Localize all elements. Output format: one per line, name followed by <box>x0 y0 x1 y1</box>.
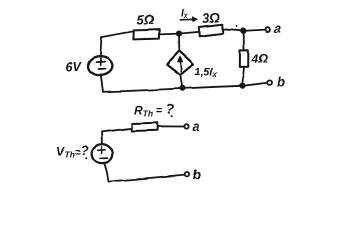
svg-text:b: b <box>193 167 201 182</box>
voltage source 6V <box>88 57 112 76</box>
svg-text:b: b <box>277 74 285 89</box>
node b (top circuit) <box>268 74 285 89</box>
label RTh = ? <box>134 101 175 119</box>
pen dot <box>236 25 238 27</box>
svg-text:5Ω: 5Ω <box>137 13 154 28</box>
wire to terminal b <box>242 83 266 86</box>
pen period after VTh label <box>85 157 87 159</box>
wire bottom rail <box>103 86 242 92</box>
svg-text:a: a <box>274 21 281 36</box>
junction dot top node <box>177 31 181 35</box>
wire node to 4ohm <box>243 31 245 50</box>
label 3ohm <box>202 10 220 26</box>
dependent current source 1.5Ix <box>167 51 194 75</box>
wire 5ohm to node <box>159 33 179 36</box>
wire bottom to terminal b <box>108 175 184 182</box>
wire RTh right to terminal a <box>158 125 184 127</box>
junction dot bottom of 4ohm <box>240 84 244 88</box>
label Ix with arrow <box>181 9 198 22</box>
svg-text:Ix: Ix <box>181 9 189 21</box>
svg-text:RTh = ?: RTh = ? <box>134 101 175 119</box>
svg-text:VTh=?: VTh=? <box>57 143 89 160</box>
resistor RTh <box>132 123 158 131</box>
resistor 3ohm <box>199 24 223 36</box>
pen period after RTh label <box>171 115 173 117</box>
svg-text:a: a <box>192 119 200 134</box>
wire source bottom <box>101 75 103 91</box>
wire top-left horizontal <box>102 31 134 37</box>
node a (top circuit) <box>265 21 281 36</box>
resistor 5ohm <box>133 30 159 40</box>
wire node to dependent source <box>178 34 180 51</box>
wire dependent source to bottom rail <box>180 75 182 88</box>
resistor 4ohm <box>240 50 249 67</box>
label 1.5Ix <box>195 66 218 79</box>
label 6V <box>66 60 83 74</box>
junction dot bottom of dependent source <box>180 86 184 90</box>
node a (thevenin) <box>184 119 200 134</box>
label VTh = ? <box>57 143 89 160</box>
junction dot right node <box>241 29 245 33</box>
wire VTh bottom <box>104 164 108 182</box>
svg-text:4Ω: 4Ω <box>251 52 269 66</box>
wire to terminal a <box>243 30 264 31</box>
wire down to VTh <box>101 132 103 144</box>
voltage source VTh <box>92 144 113 164</box>
wire 3ohm to node <box>223 29 243 31</box>
svg-text:3Ω: 3Ω <box>202 10 220 26</box>
label 5ohm <box>137 13 154 28</box>
wire left vertical <box>100 37 101 57</box>
wire 4ohm to bottom rail <box>242 67 244 86</box>
node b (thevenin) <box>185 167 201 182</box>
wire node to 3ohm <box>179 32 199 34</box>
wire RTh left <box>102 128 132 132</box>
label 4ohm <box>251 52 269 66</box>
svg-text:6V: 6V <box>66 60 83 74</box>
svg-text:1,5Ix: 1,5Ix <box>195 66 218 79</box>
